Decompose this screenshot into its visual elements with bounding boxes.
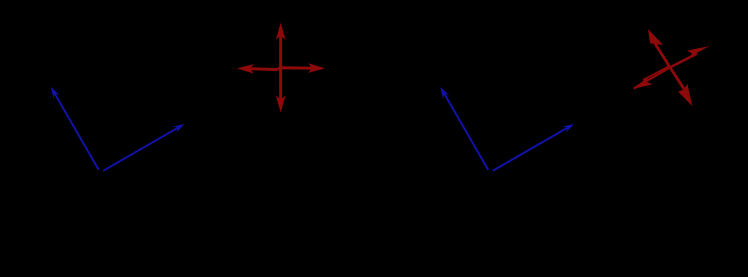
- up-right arrow of right cross: [670, 54, 697, 68]
- down-left skewed arrow of right cross: [634, 67, 670, 88]
- down-right arrow of right cross: [670, 67, 684, 89]
- red rotated 4-way cross (right): [633, 29, 710, 106]
- red 4-way translation cross (left): [237, 23, 325, 113]
- blue camera axes (right): [440, 87, 574, 171]
- blue camera axes (left): [51, 87, 185, 171]
- up-left arrow of right cross: [655, 44, 670, 68]
